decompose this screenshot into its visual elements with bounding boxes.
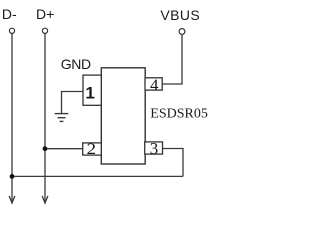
wire bottom horizontal: [12, 175, 183, 177]
svg-text:4: 4: [150, 76, 159, 95]
pin 2 box: [83, 141, 102, 158]
terminal circle D-: [9, 28, 14, 33]
node GND label: [61, 56, 91, 72]
wire D- vertical: [11, 34, 13, 203]
svg-text:GND: GND: [61, 56, 91, 72]
pin 4 box: [145, 76, 162, 95]
wire D+ vertical: [44, 34, 46, 203]
svg-text:D-: D-: [2, 6, 17, 22]
IC value label ESDSR05: [150, 107, 208, 122]
arrow D- down: [9, 196, 15, 203]
pin 1 box: [83, 75, 101, 105]
svg-text:2: 2: [87, 141, 97, 158]
arrow D+ down: [42, 196, 48, 203]
wire pin1 to ground: [62, 92, 84, 114]
svg-text:D+: D+: [36, 6, 54, 22]
wire pin4 to VBUS: [162, 83, 183, 85]
svg-text:1: 1: [85, 84, 94, 103]
node D+ label: [36, 6, 54, 22]
ground: [55, 114, 69, 122]
node VBUS label: [160, 7, 200, 23]
wire VBUS vertical: [181, 35, 183, 84]
wire pin3 wrap: [163, 149, 184, 177]
pin 3 box: [145, 139, 163, 158]
junction dot on D-: [10, 174, 15, 179]
svg-text:VBUS: VBUS: [160, 7, 200, 23]
svg-text:3: 3: [150, 139, 159, 158]
node D- label: [2, 6, 17, 22]
junction dot on D+: [43, 146, 48, 151]
svg-text:ESDSR05: ESDSR05: [150, 107, 208, 122]
terminal circle VBUS: [179, 29, 185, 35]
terminal circle D+: [42, 28, 47, 33]
wire D+ to pin2: [45, 148, 83, 150]
IC U1 body: [101, 68, 145, 164]
